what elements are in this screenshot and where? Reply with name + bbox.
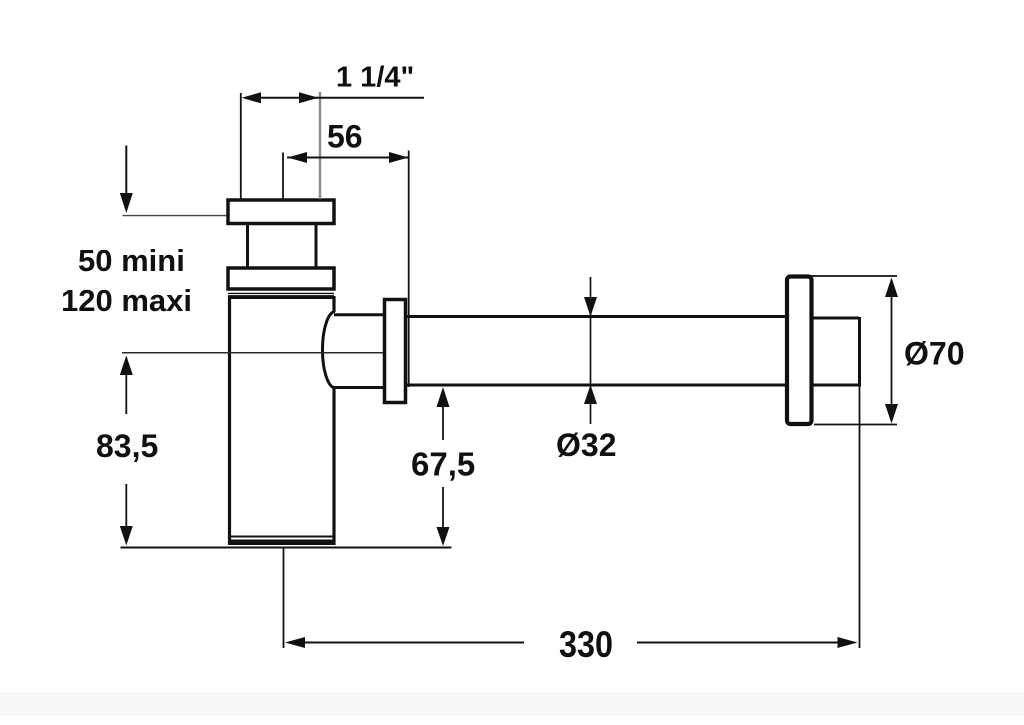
height arrow top left <box>125 146 127 197</box>
horizontal pipe <box>406 317 787 386</box>
dim 330 ext right <box>859 387 861 649</box>
boss top line <box>334 313 384 316</box>
svg-text:Ø32: Ø32 <box>556 427 616 463</box>
wall flange <box>787 277 812 425</box>
ground line <box>121 547 452 549</box>
svg-text:56: 56 <box>327 119 363 155</box>
boss bottom line <box>334 386 384 389</box>
svg-text:120 maxi: 120 maxi <box>61 283 192 318</box>
dim diam70 ext top <box>790 275 897 277</box>
dim 1 1/4 ext line left <box>240 93 242 199</box>
dim diam70 line <box>891 280 893 421</box>
inlet neck <box>248 224 317 267</box>
body bottom cap <box>228 540 335 546</box>
arrow right <box>389 152 409 163</box>
dim 1 1/4 line <box>246 97 424 99</box>
dim 56 line <box>287 157 408 159</box>
svg-text:Ø70: Ø70 <box>904 336 964 372</box>
svg-text:1 1/4": 1 1/4" <box>336 62 414 94</box>
dim 330 ext left <box>283 548 285 648</box>
arrow right <box>299 92 319 103</box>
svg-text:67,5: 67,5 <box>411 446 475 483</box>
body flange top (nut) <box>228 200 334 224</box>
wall pipe stub <box>812 317 860 387</box>
dim 56 ext left <box>282 153 284 200</box>
dim diam70 ext bottom <box>814 424 897 426</box>
scan band bottom <box>0 692 1024 716</box>
dim 83,5 shaft <box>125 358 127 541</box>
thin ring <box>228 293 334 295</box>
trap body <box>230 296 335 545</box>
body flange lower (nut) <box>228 268 334 289</box>
svg-text:330: 330 <box>559 624 613 665</box>
arrow left <box>288 152 308 163</box>
thin line to flange <box>123 215 227 217</box>
dim 56 ext right <box>408 151 410 388</box>
arrow left <box>242 92 262 103</box>
dim 67,5 shaft <box>442 390 444 542</box>
dim diam32 line <box>590 277 592 424</box>
dim 1 1/4 center line gray <box>319 92 321 199</box>
svg-text:50 mini: 50 mini <box>78 243 185 278</box>
axis line <box>122 352 384 354</box>
outlet nut <box>385 300 406 403</box>
dim 330 line <box>288 642 524 644</box>
outlet boss arc <box>322 312 334 389</box>
svg-text:83,5: 83,5 <box>96 428 158 464</box>
